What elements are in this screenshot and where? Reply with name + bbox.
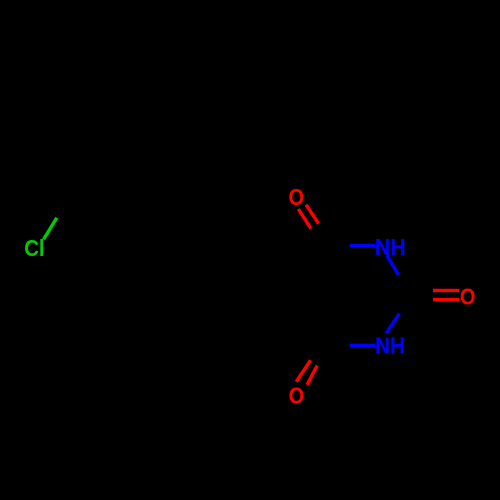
bond N3-C2 (blue half) (387, 256, 399, 276)
svg-text:Cl: Cl (24, 235, 44, 261)
bond C4-N3 (blue half) (350, 244, 375, 247)
svg-text:O: O (289, 383, 305, 409)
bond C6-N1 (blue half) (350, 344, 376, 347)
svg-text:O: O (289, 184, 305, 210)
svg-text:O: O (460, 283, 476, 309)
double bond C4=O line 1 (red half) (298, 209, 311, 229)
double bond C2=O line 1 (red half) (433, 289, 459, 292)
double bond C6=O line 2 (red half) (307, 366, 317, 385)
svg-text:NH: NH (375, 234, 406, 260)
double bond C2=O line 2 (red half) (433, 298, 459, 301)
bond N1-C2 (blue half) (386, 314, 399, 334)
double bond C6=O line 1 (red half) (296, 360, 310, 382)
bond Cl-C (green half) (44, 218, 57, 240)
svg-text:NH: NH (375, 332, 405, 358)
double bond C4=O line 2 (red half) (306, 205, 319, 224)
